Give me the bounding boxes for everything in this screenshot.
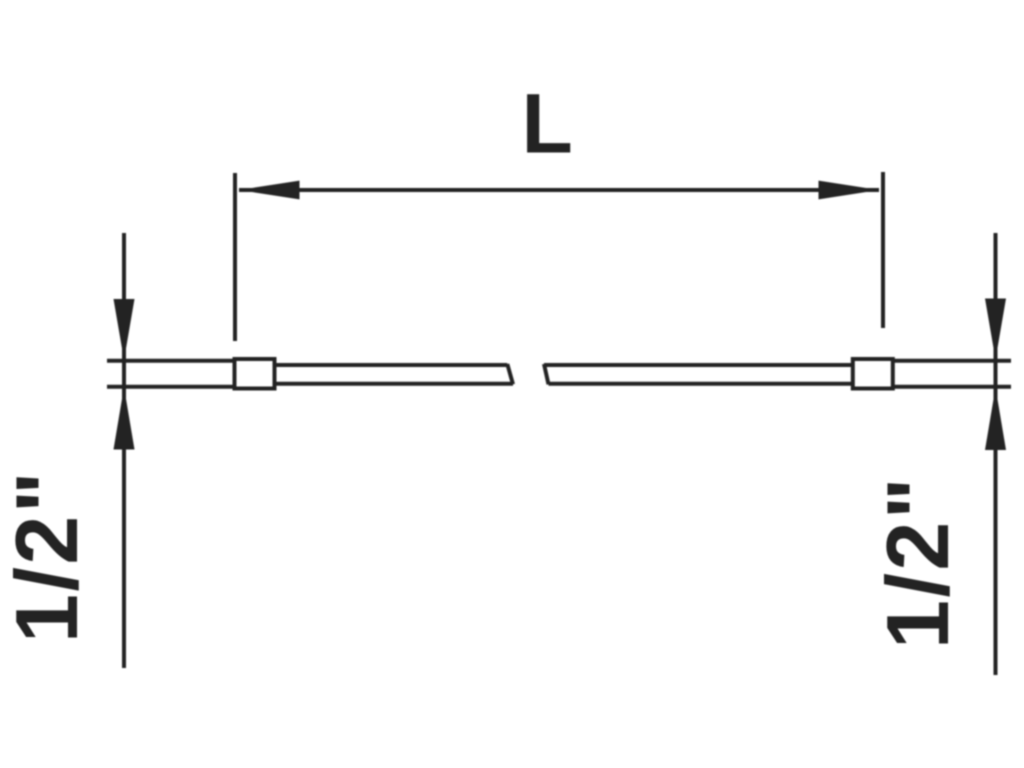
extension line left for L xyxy=(233,173,237,341)
hose right thick section top wall xyxy=(891,359,1011,363)
hose thin section right bottom wall xyxy=(549,382,854,386)
hose thin section left bottom wall xyxy=(275,382,514,386)
break cut right xyxy=(544,364,549,384)
extension line right for L xyxy=(881,172,885,328)
dimension line 1/2 left xyxy=(122,233,126,668)
hose right thick section bottom wall xyxy=(891,385,1011,389)
svg-text:1/2": 1/2" xyxy=(868,475,967,649)
arrowhead 1/2 left up xyxy=(114,387,135,450)
svg-text:L: L xyxy=(522,77,573,171)
ferrule right xyxy=(853,359,893,389)
svg-text:1/2": 1/2" xyxy=(0,469,96,643)
hose thin section left top wall xyxy=(275,363,508,367)
arrowhead L right xyxy=(819,181,880,200)
dimension line L xyxy=(239,188,879,192)
hose thin section right top wall xyxy=(544,363,853,367)
dimension line 1/2 right xyxy=(994,233,998,675)
arrowhead L left xyxy=(239,181,300,200)
arrowhead 1/2 right down xyxy=(985,299,1006,360)
arrowhead 1/2 right up xyxy=(985,388,1006,451)
hose left thick section bottom wall xyxy=(107,385,236,389)
break cut left xyxy=(507,364,513,384)
hose left thick section top wall xyxy=(107,359,236,363)
ferrule left xyxy=(235,359,275,389)
arrowhead 1/2 left down xyxy=(114,299,135,360)
